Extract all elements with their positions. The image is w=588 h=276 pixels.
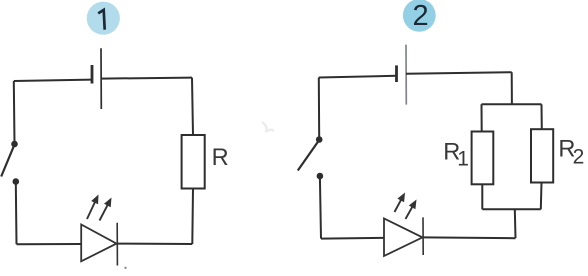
- stray ink speck below LED D1: [124, 267, 126, 269]
- svg-text:1: 1: [457, 148, 469, 171]
- wire: circuit 1 bottom-left (LED anode to corner): [17, 243, 82, 245]
- wire: circuit 1 top-left (corner to battery): [14, 80, 92, 81]
- switch S2 upper terminal node: [316, 136, 323, 143]
- wire: circuit 2 top-left (corner to battery): [319, 76, 397, 78]
- switch S1 lever (open): [1, 145, 14, 177]
- battery B1 long plate (positive): [100, 48, 102, 109]
- svg-text:R: R: [212, 145, 229, 171]
- wire: R1 branch upper: [481, 104, 483, 131]
- wire: circuit 1 left side upper: [13, 81, 16, 144]
- faint scan smudge: [262, 122, 274, 132]
- LED D1 triangle: [81, 225, 116, 262]
- wire: circuit 2 right drop to parallel network: [511, 72, 513, 104]
- wire: parallel network top rail: [482, 103, 542, 105]
- LED D1 light arrow 2: [100, 198, 112, 221]
- wire: R2 branch lower: [540, 183, 543, 210]
- LED D1 light arrow 1: [87, 195, 99, 220]
- resistor R2 body: [531, 129, 553, 182]
- wire: circuit 1 left side lower: [15, 182, 18, 244]
- wire: parallel network bottom rail: [482, 208, 541, 210]
- resistor R1 body: [472, 132, 494, 185]
- switch S1 lower terminal node: [13, 178, 20, 185]
- battery B1 short plate (negative): [91, 65, 94, 84]
- LED D2 cathode bar: [422, 217, 424, 255]
- wire: R1 branch lower: [481, 184, 483, 209]
- wire: circuit 2 bottom-right (LED cathode to corner): [423, 236, 516, 239]
- circled number 2: [403, 0, 436, 32]
- switch S2 lower terminal node: [317, 173, 324, 180]
- wire: circuit 1 right side upper: [192, 78, 193, 135]
- wire: R2 branch upper: [541, 104, 543, 129]
- LED D1 cathode bar: [116, 223, 118, 266]
- LED D2 light arrow 1: [395, 193, 406, 213]
- wire: circuit 1 bottom-right (corner to LED cathode): [118, 243, 193, 245]
- svg-text:2: 2: [573, 146, 585, 169]
- wire: circuit 2 bottom-left (LED anode to corner): [321, 237, 384, 240]
- resistor R1 body: [182, 135, 205, 189]
- wire: circuit 2 left side upper: [318, 78, 320, 140]
- switch S2 lever (open): [298, 140, 319, 171]
- wire: circuit 2 drop from bottom rail to bottom wire: [514, 209, 517, 238]
- battery B2 long plate (positive): [405, 45, 407, 105]
- switch S1 upper terminal node: [11, 141, 18, 148]
- battery B2 short plate (negative): [395, 65, 398, 82]
- circled number 1: [87, 2, 120, 35]
- wire: circuit 2 left side lower: [320, 177, 321, 239]
- wire: circuit 1 top-right (battery to corner): [101, 78, 192, 79]
- wire: circuit 2 top-right (battery to corner): [406, 72, 512, 74]
- LED D2 triangle: [384, 219, 423, 257]
- wire: circuit 1 right side lower: [191, 189, 194, 245]
- LED D2 light arrow 2: [406, 200, 417, 220]
- svg-text:2: 2: [413, 0, 429, 32]
